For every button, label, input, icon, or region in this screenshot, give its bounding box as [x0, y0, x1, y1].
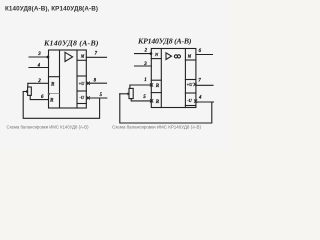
svg-text:К140УД8 (А-В): К140УД8 (А-В)	[43, 38, 99, 47]
svg-text:R: R	[50, 98, 54, 104]
svg-text:2: 2	[37, 79, 41, 84]
svg-text:-U: -U	[79, 95, 84, 100]
svg-text:R: R	[51, 81, 55, 87]
svg-text:Схема балансировки ИМС К140УД8: Схема балансировки ИМС К140УД8 (А-В)	[7, 124, 89, 129]
svg-text:3: 3	[37, 52, 41, 57]
svg-text:+U: +U	[187, 82, 194, 87]
svg-text:2: 2	[144, 49, 148, 54]
svg-text:R: R	[156, 99, 160, 105]
svg-text:4: 4	[37, 64, 41, 69]
svg-text:К140УД8(А-В), КР140УД8(А-В): К140УД8(А-В), КР140УД8(А-В)	[5, 5, 98, 12]
svg-text:+U: +U	[79, 81, 86, 86]
svg-text:КР140УД8 (А-В): КР140УД8 (А-В)	[137, 37, 192, 46]
svg-text:М: М	[80, 54, 85, 58]
svg-text:Схема балансировки ИМС КР140УД: Схема балансировки ИМС КР140УД8 (А-В)	[112, 124, 201, 129]
svg-text:R: R	[156, 83, 160, 89]
svg-text:3: 3	[143, 62, 147, 67]
svg-text:4: 4	[198, 96, 202, 101]
svg-text:1: 1	[144, 78, 146, 83]
svg-text:М: М	[187, 55, 192, 59]
